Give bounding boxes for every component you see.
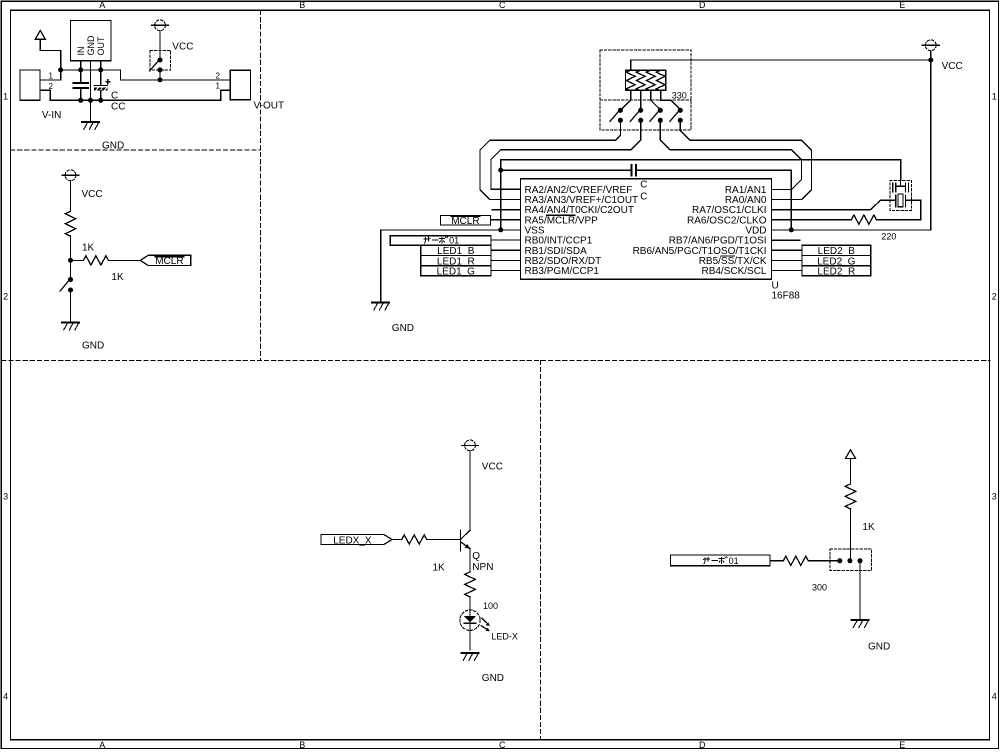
svg-text:4: 4 [3,692,8,702]
wire GND rail down to VSS pin [500,160,502,230]
wire MCLR flag to pin RA5 [490,219,520,221]
resistor R5 100 [465,572,475,597]
servo01 katakana text top [424,236,448,244]
junction VDD / bypass capacitor [789,227,794,232]
net flag MCLR to chip [441,215,491,227]
connector pin 2 [847,558,852,563]
wire chip to LED2_B flag [771,249,802,251]
wire resistor R6 to connector [850,508,852,560]
resistor network pin wire to switch 2 [640,90,642,110]
regulator IN pin wire [80,61,82,70]
resistor network element 4 [656,70,665,91]
net flag LED1_G [421,266,491,278]
wire switch to ground A2 [70,290,72,322]
svg-text:16F88: 16F88 [772,290,801,301]
junction ground rail / regulator GND [88,98,93,103]
wire LED1_B flag to chip [491,249,521,251]
VCC supply symbol A2 [62,170,79,181]
junction output rail / switch [158,77,163,82]
svg-text:A: A [99,740,105,750]
svg-text:Q: Q [472,551,480,562]
input rail wire [61,69,101,71]
svg-text:1K: 1K [862,522,875,533]
svg-text:C: C [640,192,647,203]
svg-text:1K: 1K [82,242,95,253]
connector V-OUT body [230,70,250,100]
svg-text:220: 220 [881,231,896,241]
section divider dashed vertical line x=260 [259,11,261,361]
svg-text:MCLR: MCLR [155,256,183,267]
resistor R6 1K [845,484,855,509]
svg-text:1: 1 [992,92,997,102]
svg-text:2: 2 [216,72,221,81]
svg-text:LED-X: LED-X [491,631,518,641]
resistor network element 2 [636,70,645,91]
microcontroller U 16F88 body [521,179,772,280]
svg-text:IN: IN [76,47,86,56]
wire resistor R1 to switch [70,236,72,280]
wire regulator ground to earth [90,100,92,122]
svg-text:NPN: NPN [472,562,493,573]
svg-text:1K: 1K [433,562,446,573]
output rail wire to V-OUT [101,70,230,80]
svg-text:LED2_R: LED2_R [817,266,855,277]
ground rail wire [50,99,221,101]
wire pin RA7/OSC1 to resonator [771,200,895,209]
wire down to ground symbol B2 [380,230,382,302]
svg-text:330: 330 [672,91,687,101]
wire emitter to resistor R5 [469,549,471,572]
wire resistor R7 to connector [808,560,840,562]
svg-text:VCC: VCC [82,189,103,200]
V-OUT pin 1 wire [221,90,230,100]
svg-text:LED1_G: LED1_G [437,266,476,277]
svg-text:3: 3 [3,492,8,502]
power switch SW1 [150,57,163,72]
DIP switch block dashed box [600,50,691,130]
svg-text:1: 1 [216,82,221,91]
junction input rail / capacitor C [78,67,83,72]
resistor R7 300 [783,556,808,565]
LED D1 [460,610,490,650]
net flag LED2_R [802,266,871,278]
wire connector to ground D3 [859,561,861,620]
junction input rail / V-IN pin1 [58,67,63,72]
regulator GND pin wire [90,61,92,101]
ground symbol D3 [852,620,869,627]
push switch SW3 [610,108,623,123]
svg-text:B: B [299,740,305,750]
svg-text:GND: GND [82,341,104,352]
net flag LED2_G [802,255,871,267]
svg-text:RB3/PGM/CCP1: RB3/PGM/CCP1 [525,266,600,277]
net flag MCLR A2 [140,255,190,267]
wire bypass capacitor left [501,169,632,171]
wire resistor R2 to MCLR flag [108,259,140,261]
svg-text:D: D [699,0,706,10]
resistor network pin wire to switch 4 [661,90,681,110]
svg-text:1K: 1K [111,272,124,283]
wire VDD pin to VCC [771,51,930,230]
reset switch SW2 [60,277,73,293]
svg-text:GND: GND [392,323,414,334]
capacitor C [74,70,88,100]
svg-text:2: 2 [992,292,997,302]
svg-text:VCC: VCC [172,41,193,52]
connector V-IN body [20,70,40,100]
wire switch 4 to pin RA0 [680,120,811,199]
VCC supply symbol D1 [922,40,939,51]
svg-text:LEDX_X: LEDX_X [333,535,372,546]
svg-text:E: E [899,0,905,10]
section divider dashed horizontal line y=355 [2,359,990,361]
wire bypass capacitor right to VDD [636,170,791,230]
unconnected pin stub RA4 [492,209,520,211]
svg-text:2: 2 [49,82,54,91]
voltage regulator IC1 body [70,20,111,60]
wire chip to LED2_G flag [771,259,802,261]
wire resistor R4 to transistor base [427,539,460,541]
unconnected pin stub RB7 [771,239,799,241]
transistor Q1 NPN [460,530,470,551]
net flag servo01 (bottom) [671,555,770,566]
ground symbol C3 [462,653,479,660]
resistor network pin wire to switch 3 [651,90,661,110]
svg-text:GND: GND [868,641,890,652]
junction GND rail / bypass capacitor [498,168,503,173]
svg-text:VCC: VCC [942,61,963,72]
ground symbol A2 [62,322,79,329]
svg-text:C: C [640,180,647,191]
resistor R1 1K vertical [65,211,75,236]
wire VSS pin to ground [381,229,521,231]
wire resistor network common pin to VCC rail [631,60,931,70]
svg-text:GND: GND [482,673,504,684]
wire VCC to transistor collector [469,451,471,531]
V-IN pin 1 wire [40,70,61,80]
bypass capacitor C3 [631,165,636,176]
push switch SW4 [630,108,643,123]
net flag LED1_B [421,245,491,257]
svg-text:V-IN: V-IN [42,110,61,121]
wire resonator to resistor R3 [877,200,921,219]
junction node MCLR pullup [68,258,73,263]
svg-text:300: 300 [812,583,827,593]
wire servo flag to pin RB0 [491,239,521,241]
supply arrow symbol D3 [845,450,855,459]
ceramic resonator X1 [890,175,912,210]
servo01 katakana text bottom [703,557,727,565]
svg-text:2: 2 [3,292,8,302]
net flag servo01 (top) [390,236,491,246]
svg-text:V-OUT: V-OUT [254,101,285,112]
servo connector CN1 dashed box [830,549,872,571]
svg-text:GND: GND [102,141,124,152]
section divider dashed horizontal line y=148 [11,149,261,151]
svg-text:C: C [499,0,506,10]
resistor R2 1K horizontal [83,256,108,265]
DIP switch block dashed divider [600,99,691,101]
wire switch 3 to pin RA1 [660,120,801,189]
capacitor CC (polarized) [94,70,110,100]
wire switch 2 to pin RA2 [491,120,641,189]
svg-text:3: 3 [992,492,997,502]
connector pin 3 [858,558,863,563]
ground symbol near VSS [372,303,389,310]
svg-text:1: 1 [3,92,8,102]
junction ground rail / capacitor CC [98,98,103,103]
svg-text:A: A [99,0,105,10]
svg-text:B: B [299,0,305,10]
junction input rail / regulator OUT [98,67,103,72]
push switch SW5 [650,108,663,123]
svg-text:VCC: VCC [482,462,503,473]
V-IN pin 2 wire [40,90,50,100]
svg-text:D: D [699,740,706,750]
svg-text:GND: GND [86,35,96,56]
connector pin 1 [837,558,842,563]
wire LED1_G flag to chip [491,270,521,272]
svg-text:4: 4 [992,692,997,702]
svg-text:C: C [499,740,506,750]
svg-text:E: E [899,740,905,750]
push switch SW6 [670,108,683,123]
wire VCC to switch [159,31,161,61]
wire resistor R5 to LED [469,596,471,610]
VCC supply symbol C3 [462,440,479,451]
wire switch to output rail [159,70,161,80]
GND rail wire to resonator [501,160,901,181]
resistor R4 1K [402,535,427,544]
wire chip to LED2_R flag [771,270,802,272]
svg-text:01: 01 [729,556,739,566]
resistor R3 220 [851,215,876,224]
overbar MCLR on RA5 pin label [547,214,575,216]
wire servo flag to resistor R7 [770,560,783,562]
regulator OUT pin wire [100,61,102,70]
wire VCC to resistor R1 [70,181,72,212]
section divider dashed vertical line x=540 [539,360,541,740]
resistor network RN1 body [626,70,666,90]
net flag LED1_R [421,255,491,267]
supply arrow symbol V-IN [35,31,45,40]
wire junction to resistor R2 [71,259,84,261]
overbar SS on RB5 pin label [721,255,734,257]
svg-text:01: 01 [449,236,459,246]
svg-text:CC: CC [111,102,125,113]
wire LED1_R flag to chip [491,259,521,261]
svg-text:RB4/SCK/SCL: RB4/SCK/SCL [701,266,766,277]
junction ground rail / capacitor C [78,98,83,103]
resistor network element 1 [626,70,635,91]
VCC supply symbol A1 [152,20,169,31]
wire pin RA6/OSC2 to resistor R3 [771,219,851,221]
power switch dashed box [150,51,170,71]
resistor network pin wire to switch 1 [621,90,631,109]
net flag LEDX_X [321,535,392,547]
net flag LED2_B [802,245,871,257]
wire LEDX_X flag to resistor R4 [392,539,402,541]
junction VSS [498,227,503,232]
ground symbol A1 [82,122,99,129]
svg-text:100: 100 [483,601,498,611]
junction VCC rail [928,58,933,63]
svg-text:MCLR: MCLR [451,216,479,227]
svg-text:OUT: OUT [96,36,106,56]
wire switch 1 to pin RA3 [480,120,621,199]
resistor network element 3 [646,70,655,91]
wire supply arrow to resistor R6 [850,459,852,484]
wire from supply arrow to input rail [40,39,60,70]
